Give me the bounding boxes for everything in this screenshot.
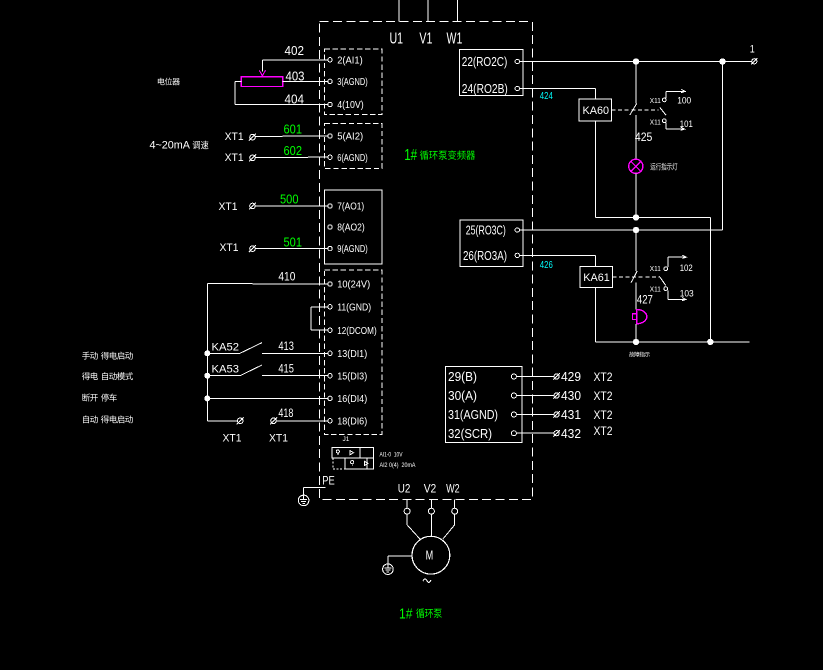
svg-text:413: 413: [278, 339, 294, 353]
svg-text:XT1: XT1: [219, 201, 238, 213]
svg-text:25(RO3C): 25(RO3C): [466, 224, 506, 238]
svg-text:XT1: XT1: [220, 242, 239, 254]
svg-text:32(SCR): 32(SCR): [448, 427, 492, 441]
svg-text:402: 402: [285, 43, 305, 58]
svg-text:1#: 1#: [404, 147, 417, 164]
svg-text:KA60: KA60: [583, 105, 610, 117]
svg-text:410: 410: [278, 270, 295, 284]
svg-text:602: 602: [284, 144, 303, 158]
svg-text:415: 415: [278, 362, 294, 376]
svg-text:10(24V): 10(24V): [337, 279, 370, 291]
svg-text:M: M: [426, 548, 434, 562]
svg-text:501: 501: [284, 235, 303, 249]
svg-text:102: 102: [680, 263, 693, 274]
svg-text:XT2: XT2: [594, 372, 613, 384]
svg-text:12(DCOM): 12(DCOM): [337, 325, 377, 337]
svg-text:101: 101: [680, 119, 693, 130]
svg-text:XT2: XT2: [594, 410, 613, 422]
svg-text:XT1: XT1: [225, 131, 244, 143]
svg-text:31(AGND): 31(AGND): [448, 408, 498, 422]
svg-text:15(DI3): 15(DI3): [337, 370, 367, 382]
svg-text:500: 500: [280, 193, 299, 207]
svg-text:X11: X11: [650, 264, 661, 273]
svg-text:418: 418: [278, 406, 293, 420]
svg-text:103: 103: [680, 289, 694, 300]
svg-text:X11: X11: [650, 284, 661, 293]
svg-text:8(AO2): 8(AO2): [337, 222, 365, 234]
svg-text:2(AI1): 2(AI1): [337, 54, 363, 66]
svg-text:9(AGND): 9(AGND): [337, 243, 368, 255]
svg-text:XT2: XT2: [594, 391, 613, 403]
svg-text:X11: X11: [650, 96, 661, 105]
svg-text:PE: PE: [322, 475, 335, 487]
svg-text:1: 1: [750, 44, 755, 56]
svg-text:29(B): 29(B): [448, 370, 477, 384]
svg-text:3(AGND): 3(AGND): [337, 76, 368, 88]
svg-text:429: 429: [561, 369, 581, 384]
svg-text:601: 601: [284, 122, 303, 136]
svg-text:1#: 1#: [399, 606, 413, 622]
svg-text:W2: W2: [446, 482, 460, 496]
svg-text:KA52: KA52: [212, 341, 240, 353]
svg-text:403: 403: [286, 68, 305, 83]
svg-text:426: 426: [540, 259, 553, 271]
svg-text:30(A): 30(A): [448, 389, 477, 403]
svg-text:XT1: XT1: [225, 152, 244, 164]
svg-text:427: 427: [637, 295, 653, 307]
svg-text:V1: V1: [419, 30, 432, 47]
svg-text:U2: U2: [398, 482, 411, 496]
svg-text:7(AO1): 7(AO1): [337, 201, 364, 213]
svg-text:U1: U1: [390, 30, 404, 47]
svg-text:432: 432: [561, 426, 581, 441]
svg-text:424: 424: [540, 90, 553, 102]
svg-text:W1: W1: [447, 30, 463, 47]
svg-text:KA61: KA61: [583, 272, 610, 284]
svg-text:24(RO2B): 24(RO2B): [462, 82, 508, 96]
svg-text:430: 430: [561, 388, 581, 403]
svg-text:XT2: XT2: [594, 426, 613, 438]
svg-text:AI1-0 10V: AI1-0 10V: [380, 452, 403, 458]
svg-text:13(DI1): 13(DI1): [337, 348, 367, 360]
svg-text:22(RO2C): 22(RO2C): [462, 55, 508, 69]
svg-text:5(AI2): 5(AI2): [337, 131, 363, 143]
svg-text:26(RO3A): 26(RO3A): [463, 249, 507, 263]
svg-text:XT1: XT1: [269, 432, 288, 444]
svg-text:X11: X11: [650, 117, 661, 126]
svg-text:4(10V): 4(10V): [337, 99, 364, 111]
svg-text:4~20mA: 4~20mA: [150, 140, 191, 152]
svg-text:100: 100: [677, 95, 691, 106]
svg-text:431: 431: [561, 407, 581, 422]
svg-text:AI2 0(4) 20mA: AI2 0(4) 20mA: [380, 463, 416, 469]
svg-text:J1: J1: [343, 436, 350, 443]
svg-text:16(DI4): 16(DI4): [337, 393, 367, 405]
svg-text:11(GND): 11(GND): [337, 301, 371, 313]
svg-text:404: 404: [285, 91, 305, 106]
svg-text:18(DI6): 18(DI6): [337, 415, 367, 427]
svg-text:V2: V2: [424, 482, 437, 496]
svg-text:6(AGND): 6(AGND): [337, 152, 368, 164]
svg-text:KA53: KA53: [212, 364, 240, 376]
svg-text:XT1: XT1: [223, 432, 242, 444]
svg-text:425: 425: [635, 132, 653, 144]
